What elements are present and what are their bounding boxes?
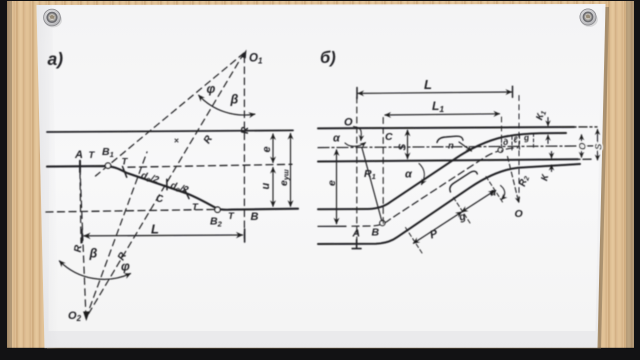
scanned figure area — [49, 6, 603, 332]
vertical dashed at A down to L dim — [80, 172, 81, 243]
svg-text:β: β — [230, 93, 239, 107]
label b) — [320, 49, 336, 67]
P dimension — [413, 212, 461, 243]
svg-text:C: C — [385, 131, 393, 143]
L dimension — [84, 234, 243, 237]
upper track axis (dash-dot) — [318, 146, 597, 148]
vertical dashed V2 — [382, 118, 384, 227]
top base line — [47, 130, 293, 132]
circle B1 — [105, 163, 110, 168]
S dimension right — [597, 129, 599, 160]
d/l/g ticks — [501, 140, 503, 153]
K dimension arrows — [551, 152, 553, 159]
svg-text:B: B — [372, 227, 380, 239]
svg-text:β: β — [89, 247, 98, 261]
e_ush dimension — [290, 134, 292, 207]
svg-text:L: L — [424, 77, 432, 92]
S dimension left — [407, 130, 409, 158]
L1 dimension — [385, 114, 500, 115]
svg-text:S: S — [398, 144, 409, 151]
svg-text:A: A — [352, 228, 361, 240]
vertical dashed V4 — [501, 117, 503, 146]
wood edge shading — [7, 1, 12, 349]
pin top-left — [44, 9, 62, 27]
svg-text:а): а) — [48, 49, 64, 69]
upper track top rail — [318, 127, 574, 128]
switch bracket upper — [437, 136, 463, 142]
dashed vertical A-O2 — [80, 168, 86, 318]
A perp tick — [352, 240, 361, 249]
label a) — [48, 49, 64, 69]
svg-text:u: u — [260, 183, 272, 190]
vertical dashed V1 — [356, 97, 358, 243]
svg-text:R: R — [240, 126, 251, 134]
svg-text:O: O — [344, 117, 353, 129]
L dimension — [358, 92, 512, 93]
svg-text:B: B — [251, 211, 259, 223]
svg-text:е: е — [261, 146, 273, 152]
svg-text:б): б) — [320, 49, 336, 67]
tangent circle upper merge — [498, 148, 503, 153]
svg-text:A: A — [74, 149, 83, 161]
u dimension — [272, 168, 274, 207]
arrowhead at O2 bottom — [83, 312, 89, 322]
svg-text:φ: φ — [207, 82, 216, 96]
arc phi-beta near O2 — [59, 261, 130, 279]
vertical dashed V3 — [518, 96, 520, 205]
alpha right arc — [501, 186, 505, 200]
tick d0 left end (perp) — [123, 167, 127, 178]
alpha mid arc — [419, 164, 424, 185]
upper track bottom rail — [318, 159, 578, 161]
tangent circle B — [380, 220, 385, 225]
svg-text:n: n — [448, 141, 454, 152]
R1 radius line — [362, 148, 382, 221]
g dimension — [462, 191, 495, 212]
tick d0 mid separator — [166, 179, 168, 189]
dashed radial O1 to B1 — [96, 53, 245, 176]
pin top-right — [580, 9, 598, 27]
svg-text:α: α — [490, 188, 497, 199]
O gauge dimension — [581, 135, 583, 158]
switch bracket lower — [450, 171, 477, 192]
svg-text:L: L — [151, 222, 159, 237]
O leader arrow — [354, 127, 362, 141]
arrowhead at O1 apex — [241, 50, 247, 59]
dashed lower straight (left extension) — [46, 209, 219, 212]
dashed old straight (mid line, right extension) — [128, 164, 292, 167]
perp ticks for P/g — [406, 228, 423, 254]
K1 dimension arrows — [547, 118, 549, 126]
svg-text:α: α — [405, 169, 413, 181]
R2 radius dashed with arrow to O — [508, 157, 519, 203]
lower track rail A (curves into the diagonal) — [318, 133, 566, 209]
e dimension — [272, 134, 274, 163]
svg-text:S: S — [594, 143, 605, 150]
svg-text:α: α — [333, 133, 341, 145]
alpha top-left arc — [345, 143, 366, 147]
dashed long radial O1-C-O2 — [86, 53, 244, 318]
arc phi-beta near O1 — [199, 95, 255, 115]
svg-text:C: C — [156, 194, 164, 205]
crossing axis dashed — [352, 148, 518, 227]
n arrow — [459, 142, 472, 151]
svg-text:O: O — [515, 208, 523, 220]
svg-text:О: О — [578, 142, 589, 150]
lower track axis: solid stub — [318, 225, 346, 227]
dashed vertical from O1 — [243, 56, 245, 240]
circle B2 — [215, 207, 220, 212]
dashed radial O2 up 20deg — [86, 152, 147, 318]
svg-text:е: е — [326, 180, 338, 186]
tick d0 right end (perp) — [184, 188, 189, 199]
small x blemish — [175, 139, 178, 142]
text labels — [326, 77, 605, 241]
upper track straight + S-curve + lower straight — [47, 166, 298, 210]
lower track rail B — [318, 164, 580, 244]
tick at A — [79, 161, 81, 172]
e dimension — [336, 150, 338, 224]
